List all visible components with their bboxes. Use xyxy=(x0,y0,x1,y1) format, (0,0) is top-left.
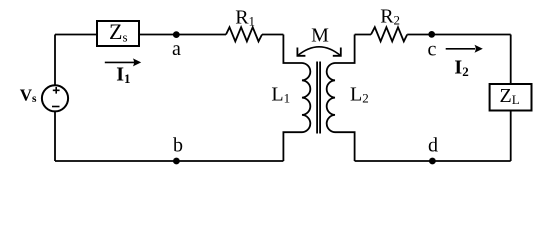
mutual inductance arrow M xyxy=(297,47,340,56)
node c xyxy=(428,31,435,38)
svg-text:L1: L1 xyxy=(271,84,290,106)
wire R1 to transformer xyxy=(262,34,283,36)
svg-text:M: M xyxy=(311,25,329,47)
left rail bottom xyxy=(54,111,56,161)
right rail top xyxy=(510,35,512,84)
svg-text:Vs: Vs xyxy=(20,86,37,106)
voltage source Vs xyxy=(42,85,68,111)
svg-text:d: d xyxy=(428,135,438,157)
minus sign xyxy=(52,106,60,108)
current arrow I1 xyxy=(105,61,134,63)
svg-text:I1: I1 xyxy=(116,64,130,87)
wire Zs to R1 xyxy=(140,34,226,36)
right rail bottom xyxy=(510,112,512,162)
svg-text:Zs: Zs xyxy=(109,19,128,45)
node b xyxy=(173,158,180,165)
svg-text:c: c xyxy=(428,38,437,60)
svg-text:b: b xyxy=(173,135,183,157)
wire transformer to R2 xyxy=(355,34,371,36)
svg-text:R2: R2 xyxy=(380,6,400,28)
resistor R1 xyxy=(226,27,262,41)
svg-text:I2: I2 xyxy=(454,57,468,80)
node d xyxy=(429,158,436,165)
wire R2 to right corner xyxy=(407,34,511,36)
plus sign xyxy=(53,87,60,94)
svg-text:R1: R1 xyxy=(235,7,255,29)
svg-text:ZL: ZL xyxy=(500,85,520,107)
svg-text:L2: L2 xyxy=(350,84,369,106)
node a xyxy=(173,31,180,38)
bottom wire right xyxy=(355,160,511,162)
bottom wire left xyxy=(55,160,283,162)
current arrow I2 xyxy=(446,48,475,50)
impedance Zs xyxy=(97,21,139,46)
transformer core xyxy=(317,62,320,134)
left rail top xyxy=(54,35,56,85)
svg-text:a: a xyxy=(172,38,181,60)
wire top-left from source to Zs xyxy=(55,34,97,36)
inductor L1 xyxy=(283,35,310,162)
inductor L2 xyxy=(327,35,355,162)
resistor R2 xyxy=(371,27,407,41)
load ZL xyxy=(490,84,532,111)
